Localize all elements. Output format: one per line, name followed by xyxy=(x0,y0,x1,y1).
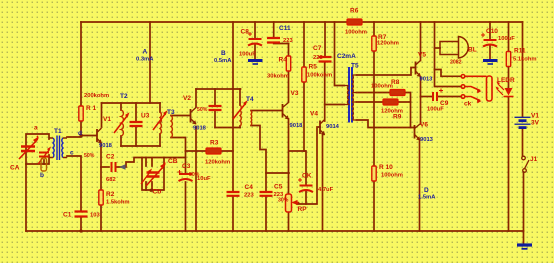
transistor V3 xyxy=(282,104,284,118)
wire R11 LED drop xyxy=(508,22,510,231)
wire R1 bias drop xyxy=(80,22,82,135)
svg-text:R11: R11 xyxy=(514,48,526,55)
wire CB trimmer branch xyxy=(145,158,147,191)
wire T3 secondary top to V2 base xyxy=(171,115,190,117)
svg-text:C8: C8 xyxy=(241,29,250,36)
svg-text:R3: R3 xyxy=(210,140,219,147)
svg-text:9014: 9014 xyxy=(326,124,340,130)
svg-text:9013: 9013 xyxy=(420,77,434,83)
switch J1 xyxy=(522,156,529,172)
svg-text:T5: T5 xyxy=(351,63,359,70)
svg-text:A: A xyxy=(143,49,148,56)
wire bottom ground bus xyxy=(26,230,524,232)
wire V6 collector xyxy=(420,97,422,125)
svg-text:9018: 9018 xyxy=(290,123,304,129)
variable capacitor CA trimmer xyxy=(39,153,49,157)
svg-text:U3: U3 xyxy=(141,113,150,120)
inductor T3 secondary coil xyxy=(171,116,172,138)
wire T2 coil branch xyxy=(120,103,122,146)
svg-text:R4: R4 xyxy=(279,57,288,64)
labels blue xyxy=(40,25,436,201)
trimmer slug body xyxy=(41,158,47,171)
svg-text:R 10: R 10 xyxy=(379,164,393,171)
wire B current feed through C4 xyxy=(232,22,234,231)
svg-text:c: c xyxy=(70,150,74,157)
wire T4 secondary top to V3 base xyxy=(251,110,283,112)
wire T4 secondary bottom jog to C5 xyxy=(251,126,266,174)
wire T1 secondary bottom to C1 xyxy=(67,156,81,231)
wire T3 secondary bottom xyxy=(171,138,186,152)
svg-text:R2: R2 xyxy=(106,191,115,198)
capacitor C6 electrolytic xyxy=(299,186,313,193)
wire C5 branch xyxy=(266,173,289,231)
svg-text:R6: R6 xyxy=(350,8,359,15)
wire BL stub xyxy=(435,47,441,49)
wire T5 secondary bottom to V6 base xyxy=(357,120,415,128)
wire C11 drop xyxy=(274,22,289,44)
capacitor C10 plates xyxy=(483,40,497,47)
wire R3 AGC xyxy=(186,150,234,152)
wire T4 primary xyxy=(239,89,241,128)
resistor R6 xyxy=(347,19,362,25)
wire C7 drop xyxy=(324,22,326,62)
probe arrow on staircase xyxy=(119,164,126,170)
capacitor C4 plates xyxy=(227,192,240,196)
svg-text:CB: CB xyxy=(168,158,178,165)
svg-text:C4: C4 xyxy=(245,184,254,191)
svg-text:9018: 9018 xyxy=(99,143,113,149)
capacitor C1 plates xyxy=(75,212,88,217)
svg-text:T2: T2 xyxy=(120,93,128,100)
capacitor T2 tank cap plates xyxy=(130,122,143,126)
svg-text:9013: 9013 xyxy=(420,137,434,143)
transformer T1 xyxy=(53,136,63,161)
transformer T1 leads xyxy=(49,138,67,158)
transistor V1 xyxy=(96,129,98,142)
wire output node to C9 xyxy=(421,96,433,98)
svg-text:R5: R5 xyxy=(309,64,318,71)
inductor T4 secondary coil xyxy=(250,111,253,126)
wire A current feed xyxy=(149,22,151,103)
svg-text:Cb: Cb xyxy=(153,189,162,196)
svg-text:T4: T4 xyxy=(246,96,254,103)
resistor R11 xyxy=(506,52,510,67)
svg-text:10uF: 10uF xyxy=(197,176,211,182)
svg-text:1.5mA: 1.5mA xyxy=(418,195,436,201)
svg-text:C10: C10 xyxy=(486,28,498,35)
potentiometer RP xyxy=(286,194,292,212)
speaker BL xyxy=(440,37,468,59)
wire T5 primary feed xyxy=(335,22,345,86)
resistor R5 xyxy=(302,67,306,82)
svg-text:682: 682 xyxy=(106,177,116,183)
svg-text:4.7uF: 4.7uF xyxy=(318,187,334,193)
variable capacitor CB xyxy=(147,173,160,177)
svg-text:C11: C11 xyxy=(279,25,291,32)
svg-text:223: 223 xyxy=(313,55,323,61)
svg-text:D: D xyxy=(424,187,429,194)
inductor T4 primary coil with arrow xyxy=(240,105,241,126)
wire node d to V1 base xyxy=(81,135,96,137)
capacitor C10 plus xyxy=(481,33,485,37)
LED LEDR xyxy=(505,88,513,96)
wire C2 staircase to osc node xyxy=(117,158,143,168)
wire R7 R10 vertical xyxy=(373,22,375,231)
svg-text:V6: V6 xyxy=(420,122,428,129)
wire C7 to V4 collector xyxy=(324,62,326,121)
svg-text:0.3mA: 0.3mA xyxy=(136,57,154,63)
svg-text:C2mA: C2mA xyxy=(337,53,356,60)
capacitor C6 plus xyxy=(298,178,302,182)
transistor V6 xyxy=(414,125,416,139)
wire V4 emitter xyxy=(322,133,324,231)
svg-text:V5: V5 xyxy=(418,52,426,59)
wire jack top contact feed xyxy=(435,70,462,77)
wires skeleton xyxy=(26,22,524,243)
wire R8 right to bias node xyxy=(404,93,411,128)
svg-text:223: 223 xyxy=(244,193,254,199)
capacitor T4 tank cap plates xyxy=(209,106,222,110)
wire R5 drop xyxy=(303,22,305,151)
wire RP wiper to V4 base xyxy=(297,127,320,204)
labels red xyxy=(10,8,540,219)
wire V6 emitter xyxy=(419,140,421,232)
svg-text:C5: C5 xyxy=(274,184,283,191)
junction node at C1 bottom xyxy=(79,229,82,232)
inductor T3 primary coil U3 with arrow xyxy=(160,112,161,134)
wire CA left branch xyxy=(26,134,49,231)
svg-text:CK: CK xyxy=(302,173,312,180)
junction node CB bottom xyxy=(150,189,153,192)
svg-text:3V: 3V xyxy=(531,120,540,127)
svg-text:100uF: 100uF xyxy=(239,52,256,58)
svg-text:J1: J1 xyxy=(530,156,538,163)
wire CB loop xyxy=(142,158,164,191)
capacitor C11 plates xyxy=(267,38,280,43)
svg-text:T3: T3 xyxy=(167,109,175,116)
wire V3 emitter to RP xyxy=(288,119,290,231)
ground under C10 xyxy=(483,61,498,65)
svg-text:V3: V3 xyxy=(291,90,299,97)
svg-text:d: d xyxy=(78,130,82,137)
resistor R7 xyxy=(372,36,376,51)
svg-text:100uF: 100uF xyxy=(498,36,515,42)
resistor R9 xyxy=(383,99,398,105)
wire speaker feed from bus to jack middle xyxy=(435,22,462,87)
wire C9 to jack xyxy=(438,96,461,98)
resistor R4 xyxy=(286,56,290,71)
wire T4 bottom rail xyxy=(215,127,240,129)
capacitor C3 electrolytic xyxy=(179,174,193,181)
transformer T5 primary winding xyxy=(344,86,349,105)
svg-text:LEDR: LEDR xyxy=(497,77,515,84)
ground bottom right xyxy=(517,245,532,249)
wire V5 collector xyxy=(420,22,422,61)
svg-text:V1: V1 xyxy=(531,113,539,120)
wire V5 emitter to output xyxy=(420,77,422,97)
svg-text:C2: C2 xyxy=(106,154,115,161)
wire V2 collector xyxy=(195,89,197,107)
wire R4 collector feed xyxy=(288,44,290,103)
wire CA bottom link xyxy=(26,160,44,164)
wire T3 primary xyxy=(159,103,161,146)
wire T1 secondary top to node d xyxy=(67,135,81,137)
wire osc node to C3 xyxy=(164,157,186,159)
wire T4 cap branch xyxy=(214,89,216,128)
resistor R3 xyxy=(206,148,221,154)
svg-text:BL: BL xyxy=(468,47,477,54)
svg-text:100ohm: 100ohm xyxy=(345,30,367,36)
svg-text:ck: ck xyxy=(464,101,472,108)
wire T5 tap to R9 xyxy=(357,101,384,103)
svg-text:RP: RP xyxy=(298,206,308,213)
svg-text:C7: C7 xyxy=(313,45,322,52)
wire T4 top rail xyxy=(196,88,241,90)
svg-text:120ohm: 120ohm xyxy=(377,41,399,47)
svg-text:R 1: R 1 xyxy=(86,105,97,112)
svg-text:b: b xyxy=(40,172,44,179)
svg-text:103: 103 xyxy=(90,213,100,219)
svg-text:0.5mA: 0.5mA xyxy=(214,58,232,64)
wire T5 tap to R8 xyxy=(357,92,391,94)
wire C6 branch xyxy=(305,151,307,204)
headphone jack CK xyxy=(461,75,492,102)
resistor R8 xyxy=(390,90,405,96)
capacitor C8 plates xyxy=(248,39,262,46)
variable capacitor CA xyxy=(21,147,35,152)
resistor R10 xyxy=(372,166,376,181)
wire V1 collector xyxy=(101,103,103,127)
wire battery J1 column xyxy=(523,22,524,243)
svg-text:100ohm: 100ohm xyxy=(381,173,403,179)
wire T5 secondary top lead to V5 base xyxy=(357,68,416,76)
svg-text:100ohm: 100ohm xyxy=(371,84,393,90)
transistor V4 xyxy=(319,121,321,135)
capacitor C9 plates xyxy=(433,92,437,101)
wire T2 tank cap branch xyxy=(135,103,137,146)
svg-text:a: a xyxy=(34,125,38,132)
svg-text:V4: V4 xyxy=(310,111,318,118)
inductor T2 tank coil with arrow xyxy=(121,110,123,136)
wire V1 emitter chain xyxy=(100,144,102,232)
wire top supply bus xyxy=(81,21,523,23)
svg-text:50%: 50% xyxy=(197,107,208,113)
svg-text:50%: 50% xyxy=(84,153,95,159)
wire T5 primary bottom to V4 collector xyxy=(325,104,344,106)
svg-text:223: 223 xyxy=(283,38,293,44)
capacitor C9 plus xyxy=(439,89,443,93)
transformer T5 secondary winding xyxy=(353,75,357,120)
svg-text:B: B xyxy=(221,50,226,57)
svg-text:30%: 30% xyxy=(278,198,289,204)
svg-text:100uF: 100uF xyxy=(427,107,444,113)
capacitor C5 plates xyxy=(260,192,273,196)
battery V1 xyxy=(515,117,531,127)
wire T2 tank bottom rail xyxy=(121,145,160,147)
junction node d xyxy=(80,134,83,137)
capacitor C8 plus xyxy=(248,32,252,36)
svg-text:V2: V2 xyxy=(183,95,191,102)
wire C3 branch xyxy=(185,151,187,231)
wire R9 right end xyxy=(396,101,411,103)
capacitor C3 plus xyxy=(178,170,182,174)
svg-text:C3: C3 xyxy=(182,163,191,170)
wire C10 drop xyxy=(489,22,491,59)
svg-text:2082: 2082 xyxy=(450,60,462,66)
svg-text:V1: V1 xyxy=(103,116,111,123)
svg-text:R9: R9 xyxy=(393,114,402,121)
transformer T5 core xyxy=(349,67,352,123)
wire T1 primary bottom xyxy=(44,155,49,164)
svg-text:120kohm: 120kohm xyxy=(205,160,230,166)
svg-text:T1: T1 xyxy=(54,128,62,135)
svg-text:1.5kohm: 1.5kohm xyxy=(106,200,130,206)
capacitor C2 plates xyxy=(112,162,116,172)
wire C8 drop xyxy=(254,22,256,59)
resistor R2 xyxy=(99,190,103,205)
svg-text:C1: C1 xyxy=(63,212,72,219)
wire detector node rail xyxy=(289,150,305,152)
ground under C8 xyxy=(248,61,263,65)
transistor V2 xyxy=(190,109,192,123)
wire emitter to C2 xyxy=(101,166,109,168)
wire T2 tank top rail xyxy=(102,102,161,104)
resistor R1 xyxy=(79,106,83,121)
svg-text:100kohm: 100kohm xyxy=(307,73,332,79)
svg-text:30kohm: 30kohm xyxy=(267,74,289,80)
svg-text:200kohm: 200kohm xyxy=(84,93,109,99)
wire V2 emitter xyxy=(195,127,197,232)
variable capacitor CB trimmer xyxy=(141,172,150,184)
svg-text:5.1kohm: 5.1kohm xyxy=(513,57,537,63)
svg-text:CA: CA xyxy=(10,165,20,172)
svg-text:9018: 9018 xyxy=(193,126,207,132)
capacitor C7 plates xyxy=(319,57,332,62)
transistor V5 xyxy=(415,62,417,75)
